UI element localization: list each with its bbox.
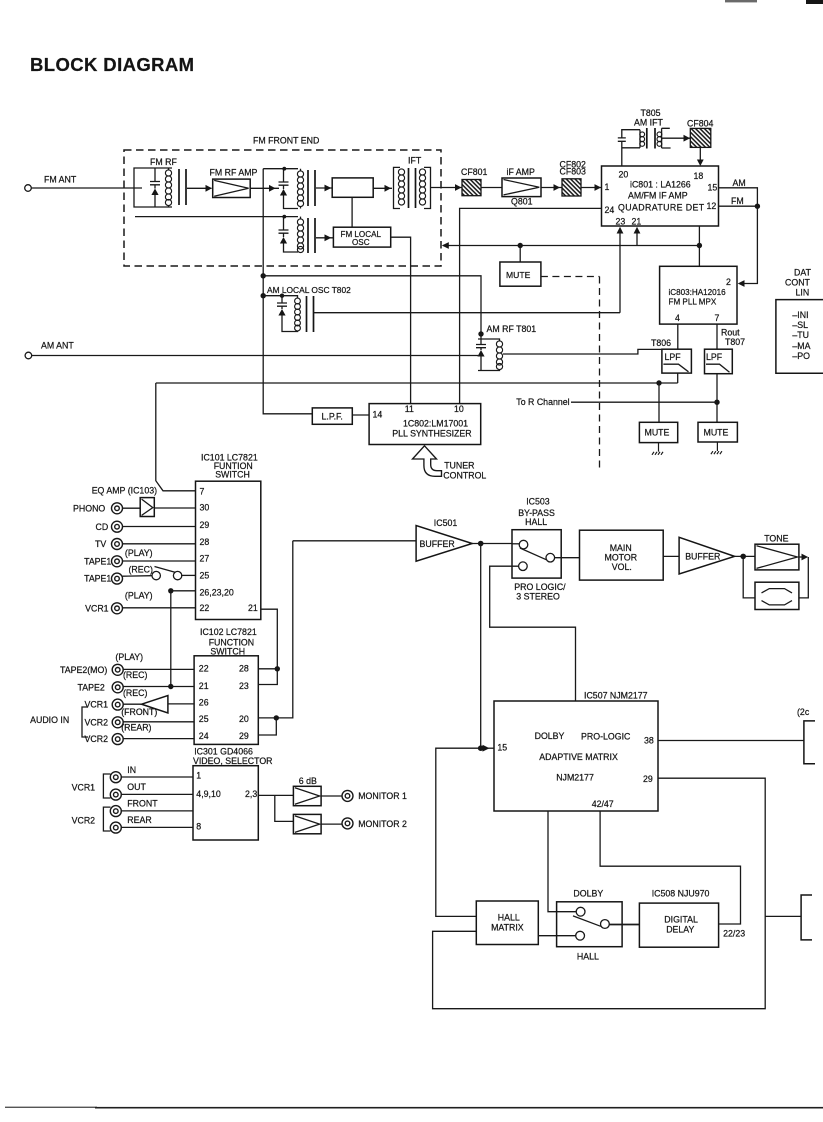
svg-text:PHONO: PHONO <box>73 504 105 514</box>
svg-text:21: 21 <box>199 681 209 691</box>
svg-text:CF803: CF803 <box>560 167 587 177</box>
svg-text:DIGITAL: DIGITAL <box>664 914 698 924</box>
svg-text:AUDIO IN: AUDIO IN <box>30 715 69 725</box>
svg-text:(REC): (REC) <box>129 564 154 574</box>
svg-text:T805: T805 <box>641 108 661 118</box>
svg-text:23: 23 <box>616 216 626 226</box>
svg-text:VCR2: VCR2 <box>72 815 96 825</box>
svg-text:15: 15 <box>708 182 718 192</box>
svg-text:2: 2 <box>726 277 731 287</box>
svg-text:PLL SYNTHESIZER: PLL SYNTHESIZER <box>392 429 471 439</box>
svg-text:TAPE2(MO): TAPE2(MO) <box>60 665 107 675</box>
svg-text:SWITCH: SWITCH <box>215 470 250 480</box>
svg-text:AM/FM IF AMP: AM/FM IF AMP <box>628 191 688 201</box>
svg-text:2,3: 2,3 <box>245 789 257 799</box>
svg-text:TAPE2: TAPE2 <box>78 682 105 692</box>
svg-text:(REC): (REC) <box>123 670 148 680</box>
svg-text:CONTROL: CONTROL <box>443 471 486 481</box>
svg-text:ADAPTIVE MATRIX: ADAPTIVE MATRIX <box>539 752 618 762</box>
svg-text:29: 29 <box>239 731 249 741</box>
svg-text:21: 21 <box>248 603 258 613</box>
svg-text:VCR2: VCR2 <box>85 717 109 727</box>
svg-text:4,9,10: 4,9,10 <box>196 789 221 799</box>
svg-text:10: 10 <box>454 404 464 414</box>
svg-text:29: 29 <box>200 520 210 530</box>
svg-text:22/23: 22/23 <box>723 929 745 939</box>
svg-text:AM RF T801: AM RF T801 <box>487 324 537 334</box>
svg-text:7: 7 <box>200 486 205 496</box>
svg-text:REAR: REAR <box>127 815 151 825</box>
svg-text:11: 11 <box>405 404 414 414</box>
svg-text:OSC: OSC <box>352 238 370 247</box>
svg-text:–MA: –MA <box>792 341 810 351</box>
svg-text:AM IFT: AM IFT <box>634 117 663 127</box>
svg-text:MONITOR 2: MONITOR 2 <box>358 819 407 829</box>
svg-text:BUFFER: BUFFER <box>420 539 455 549</box>
svg-text:27: 27 <box>200 554 210 564</box>
svg-text:T807: T807 <box>725 337 745 347</box>
svg-text:CONT: CONT <box>785 278 811 288</box>
svg-text:TUNER: TUNER <box>444 460 474 470</box>
svg-text:22: 22 <box>200 603 210 613</box>
svg-text:(REAR): (REAR) <box>121 723 151 733</box>
svg-text:IC102 LC7821: IC102 LC7821 <box>200 627 257 637</box>
svg-text:(PLAY): (PLAY) <box>125 591 153 601</box>
svg-text:4: 4 <box>675 313 680 323</box>
svg-text:24: 24 <box>605 205 615 215</box>
svg-text:TAPE1: TAPE1 <box>84 556 111 566</box>
svg-text:FM RF: FM RF <box>150 157 177 167</box>
svg-text:HALL: HALL <box>577 951 599 961</box>
svg-text:MUTE: MUTE <box>704 427 729 437</box>
svg-text:BUFFER: BUFFER <box>685 552 720 562</box>
svg-text:VCR1: VCR1 <box>72 782 96 792</box>
svg-text:IN: IN <box>127 765 136 775</box>
svg-text:14: 14 <box>373 410 383 420</box>
svg-text:HALL: HALL <box>525 517 547 527</box>
svg-text:(2c: (2c <box>797 707 810 717</box>
svg-text:MAIN: MAIN <box>610 543 632 553</box>
svg-text:T806: T806 <box>651 338 671 348</box>
svg-text:23: 23 <box>239 681 249 691</box>
svg-text:AM ANT: AM ANT <box>41 340 74 350</box>
svg-text:FM RF AMP: FM RF AMP <box>210 167 258 177</box>
svg-text:MUTE: MUTE <box>506 270 531 280</box>
svg-text:TONE: TONE <box>764 534 788 544</box>
svg-text:DOLBY: DOLBY <box>573 889 603 899</box>
svg-text:(PLAY): (PLAY) <box>125 548 153 558</box>
svg-text:FM ANT: FM ANT <box>44 175 77 185</box>
svg-text:VOL.: VOL. <box>612 562 632 572</box>
svg-text:BLOCK DIAGRAM: BLOCK DIAGRAM <box>30 54 195 75</box>
svg-text:Q801: Q801 <box>511 196 533 206</box>
svg-text:38: 38 <box>644 735 654 745</box>
svg-text:–PO: –PO <box>792 351 810 361</box>
svg-text:18: 18 <box>694 171 704 181</box>
svg-text:L.P.F.: L.P.F. <box>322 411 343 421</box>
svg-text:(FRONT): (FRONT) <box>121 707 157 717</box>
svg-text:iC803:HA12016: iC803:HA12016 <box>669 288 727 297</box>
svg-text:(PLAY): (PLAY) <box>115 652 143 662</box>
svg-text:FM PLL MPX: FM PLL MPX <box>669 297 717 306</box>
svg-text:30: 30 <box>200 503 210 513</box>
svg-text:21: 21 <box>632 216 642 226</box>
svg-text:IC501: IC501 <box>434 518 458 528</box>
svg-text:To R Channel: To R Channel <box>516 397 569 407</box>
svg-text:NJM2177: NJM2177 <box>556 773 594 783</box>
svg-text:IFT: IFT <box>408 156 422 166</box>
svg-text:VIDEO, SELECTOR: VIDEO, SELECTOR <box>193 756 273 766</box>
svg-text:7: 7 <box>715 313 720 323</box>
svg-text:EQ AMP (IC103): EQ AMP (IC103) <box>92 486 157 496</box>
svg-text:CF804: CF804 <box>687 118 714 128</box>
svg-text:MOTOR: MOTOR <box>605 552 638 562</box>
svg-text:15: 15 <box>497 743 507 753</box>
svg-text:DOLBY: DOLBY <box>535 731 565 741</box>
svg-text:FM: FM <box>731 196 744 206</box>
svg-text:1: 1 <box>196 770 201 780</box>
svg-text:CD: CD <box>96 522 109 532</box>
svg-text:MONITOR 1: MONITOR 1 <box>358 791 407 801</box>
svg-text:–SL: –SL <box>792 320 808 330</box>
svg-text:24: 24 <box>199 731 209 741</box>
svg-text:DAT: DAT <box>794 268 812 278</box>
svg-text:26,23,20: 26,23,20 <box>200 587 234 597</box>
svg-text:LIN: LIN <box>796 288 810 298</box>
svg-text:AM LOCAL OSC T802: AM LOCAL OSC T802 <box>267 285 351 295</box>
svg-text:PRO-LOGIC: PRO-LOGIC <box>581 731 631 741</box>
svg-text:AM: AM <box>733 178 746 188</box>
svg-text:TAPE1: TAPE1 <box>84 574 111 584</box>
svg-text:1C802:LM17001: 1C802:LM17001 <box>403 418 468 428</box>
svg-text:OUT: OUT <box>127 782 146 792</box>
svg-text:HALL: HALL <box>498 913 520 923</box>
svg-text:3 STEREO: 3 STEREO <box>516 592 560 602</box>
svg-text:CF801: CF801 <box>461 167 488 177</box>
svg-text:8: 8 <box>196 822 201 832</box>
svg-text:29: 29 <box>643 774 653 784</box>
svg-text:42/47: 42/47 <box>592 799 614 809</box>
svg-text:iF AMP: iF AMP <box>507 167 535 177</box>
svg-text:26: 26 <box>199 698 209 708</box>
svg-text:IC507 NJM2177: IC507 NJM2177 <box>584 691 648 701</box>
svg-text:–TU: –TU <box>792 330 809 340</box>
svg-text:iC801 : LA1266: iC801 : LA1266 <box>630 179 691 189</box>
svg-text:28: 28 <box>239 664 249 674</box>
svg-text:LPF: LPF <box>706 352 723 362</box>
svg-text:TV: TV <box>95 539 106 549</box>
svg-text:20: 20 <box>619 169 629 179</box>
svg-text:25: 25 <box>199 714 209 724</box>
svg-text:VCR1: VCR1 <box>85 603 109 613</box>
svg-text:FM FRONT END: FM FRONT END <box>253 136 319 146</box>
svg-text:(REC): (REC) <box>123 688 148 698</box>
svg-text:DELAY: DELAY <box>666 924 694 934</box>
svg-text:6 dB: 6 dB <box>299 776 317 786</box>
svg-text:12: 12 <box>707 201 717 211</box>
svg-text:22: 22 <box>199 664 209 674</box>
svg-text:VCR2: VCR2 <box>85 734 109 744</box>
svg-text:1: 1 <box>605 182 610 192</box>
svg-text:LPF: LPF <box>665 352 682 362</box>
svg-text:28: 28 <box>200 537 210 547</box>
svg-text:MATRIX: MATRIX <box>491 923 524 933</box>
svg-text:IC508 NJU970: IC508 NJU970 <box>652 889 710 899</box>
svg-text:20: 20 <box>239 714 249 724</box>
svg-text:VCR1: VCR1 <box>85 700 109 710</box>
svg-text:IC503: IC503 <box>526 496 550 506</box>
svg-text:MUTE: MUTE <box>645 428 670 438</box>
svg-text:Rout: Rout <box>721 327 740 337</box>
svg-text:PRO LOGIC/: PRO LOGIC/ <box>514 582 566 592</box>
svg-text:–INI: –INI <box>792 310 808 320</box>
svg-text:QUADRATURE DET: QUADRATURE DET <box>618 202 705 212</box>
svg-text:FRONT: FRONT <box>127 799 158 809</box>
svg-text:25: 25 <box>200 570 210 580</box>
